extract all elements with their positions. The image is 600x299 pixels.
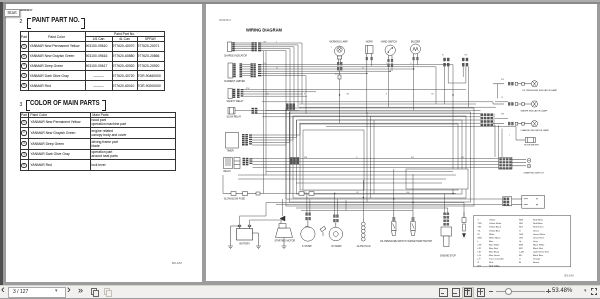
svg-text:Brown: Brown: [533, 262, 540, 264]
wire starting motor feed: [223, 175, 283, 216]
wire gauge labels speckle: [246, 41, 511, 194]
routing mesh inner clear block B: [406, 169, 468, 189]
routing mesh loop 4: [297, 120, 463, 194]
switch S3 water temp switch: [411, 212, 415, 236]
label F.I pump: [302, 246, 312, 248]
routing mesh loop 5: [300, 124, 458, 190]
switch S2 oil pressure switch: [392, 212, 396, 236]
svg-text:R/B: R/B: [501, 79, 505, 81]
page corner code text: [219, 18, 232, 22]
connector J4: [443, 58, 449, 67]
wire drops from connector J5: [463, 66, 469, 107]
svg-text:STARTING MOTOR: STARTING MOTOR: [275, 240, 296, 243]
routing mesh loop 1: [286, 108, 474, 206]
svg-text:Y/B: Y/B: [431, 93, 435, 95]
wire daisy chain left column: [264, 51, 267, 194]
svg-text:L/R: L/R: [478, 248, 482, 250]
meter hour meter: [516, 138, 535, 143]
pump M2 F.I pump: [301, 213, 315, 242]
svg-text:Red Black: Red Black: [533, 223, 544, 225]
connector J3 safety relay: [228, 89, 243, 99]
inline connector on main bus: [286, 103, 295, 109]
battery BT1: [237, 225, 253, 240]
svg-text:L.g/R: L.g/R: [519, 252, 525, 254]
buzzer BZ1: [411, 44, 421, 60]
lamp L4 charge indicator lamp: [493, 121, 538, 127]
view mode icons: [439, 288, 448, 297]
wire drops from horn: [367, 60, 372, 113]
wire drops from working lamp: [339, 79, 341, 123]
svg-text:CHARGE INDICATOR LAMP: CHARGE INDICATOR LAMP: [521, 129, 550, 132]
bottom harness bus: [260, 194, 502, 211]
relay K1 slow relay: [228, 108, 257, 115]
svg-text:White: White: [489, 233, 495, 236]
svg-text:SLOW BLOW FUSE: SLOW BLOW FUSE: [224, 199, 245, 201]
ground G1: [228, 226, 240, 249]
generator G dynamo: [329, 215, 343, 241]
label water temp switch: [408, 240, 433, 243]
switch S1 hand switch: [385, 45, 395, 67]
wire bundle from charge indicator: [235, 43, 302, 199]
svg-text:ENGINE STOP: ENGINE STOP: [440, 255, 456, 257]
svg-text:W: W: [442, 55, 444, 57]
wire stubs from timer: [252, 108, 300, 145]
wire bundle from current limiter: [242, 65, 453, 194]
wire slow relay link: [235, 110, 299, 113]
label relay: [224, 170, 232, 173]
ground G2: [253, 233, 262, 249]
glow plug R1: [361, 218, 365, 241]
svg-text:Red Yellow: Red Yellow: [489, 265, 500, 267]
svg-text:Y: Y: [509, 135, 511, 137]
svg-text:B: B: [304, 93, 306, 95]
svg-text:TIMER: TIMER: [227, 150, 234, 152]
wire drops from buzzer: [414, 60, 418, 110]
svg-text:Black White: Black White: [533, 243, 545, 246]
ground G3: [282, 238, 287, 249]
heading 1: [20, 19, 23, 25]
label charge indicator lamp: [521, 129, 550, 132]
heading 2: [20, 102, 23, 108]
page number: [565, 274, 575, 278]
timer U1: [226, 133, 253, 149]
svg-text:SAFETY RELAY: SAFETY RELAY: [227, 100, 244, 103]
svg-text:WATER TEMP SWITCH: WATER TEMP SWITCH: [408, 240, 433, 243]
wire riser to oil lamp: [497, 84, 499, 99]
label battery: [240, 242, 251, 245]
svg-text:OIL PRESSURE INDICATOR LAMP: OIL PRESSURE INDICATOR LAMP: [522, 89, 558, 92]
svg-text:L/W: L/W: [346, 93, 349, 95]
motor M1 starting motor: [276, 216, 293, 238]
label glow plug: [357, 246, 371, 248]
svg-text:Green Red: Green Red: [533, 237, 544, 239]
svg-text:L/B: L/B: [478, 252, 482, 254]
svg-text:W/R: W/R: [501, 114, 505, 116]
title: WIRING DIAGRAM: [246, 28, 283, 33]
svg-text:R/G: R/G: [519, 227, 523, 229]
connector J6 harness cluster: [481, 113, 494, 126]
inline connector on relay bus: [290, 157, 299, 164]
connector J2 current limiter: [228, 63, 261, 78]
svg-text:Y: Y: [331, 47, 333, 49]
connector J1 charge indicator: [228, 42, 262, 52]
svg-text:RELAY: RELAY: [224, 170, 232, 173]
wire drop to fuel sensor: [463, 203, 465, 218]
svg-text:L: L: [386, 63, 387, 65]
svg-text:Yellow: Yellow: [489, 220, 496, 222]
svg-text:SLOW RELAY: SLOW RELAY: [227, 115, 242, 118]
svg-text:Trace Lavender: Trace Lavender: [489, 259, 504, 261]
svg-text:Green White: Green White: [533, 233, 546, 236]
svg-text:Y/B: Y/B: [478, 227, 482, 229]
svg-text:STARTING SWITCH: STARTING SWITCH: [524, 171, 545, 174]
zoom controls: [489, 291, 493, 292]
svg-text:Y/L: Y/L: [501, 97, 504, 99]
sensor fuel unit: [462, 212, 466, 238]
svg-text:Green: Green: [533, 230, 540, 232]
svg-text:DYNAMO: DYNAMO: [332, 245, 342, 248]
fullscreen icon: [591, 288, 598, 295]
svg-text:HAND SWITCH: HAND SWITCH: [381, 40, 398, 43]
label current limiter: [224, 81, 245, 83]
svg-text:Orange: Orange: [533, 259, 541, 261]
main harness bus: [262, 102, 516, 140]
svg-text:HOUR METER: HOUR METER: [524, 144, 539, 146]
wire battery positive: [240, 203, 285, 226]
label starting motor: [275, 240, 296, 243]
label starting switch: [524, 171, 545, 174]
wire drop to glow plug: [362, 180, 364, 218]
solenoid engine stop: [441, 213, 452, 247]
svg-text:G/R: G/R: [266, 93, 270, 95]
lamp L3 water indicator lamp: [493, 101, 538, 107]
svg-text:Blue White: Blue White: [489, 243, 500, 246]
svg-text:W/B: W/B: [478, 237, 483, 239]
switch S4 starting switch: [499, 158, 531, 170]
table 2: [20, 112, 176, 171]
legend table of wire colors: [474, 216, 571, 267]
wire drops from connector J4: [445, 66, 466, 104]
label charge indicator: [224, 55, 247, 58]
svg-text:Blue Red: Blue Red: [489, 248, 499, 250]
svg-text:L/Y: L/Y: [478, 259, 482, 261]
wire risers J6 to starting switch: [495, 125, 502, 157]
svg-text:Blue Black: Blue Black: [489, 252, 500, 254]
wire lamp feeds: [494, 102, 508, 126]
svg-text:L/W: L/W: [263, 41, 266, 43]
svg-text:Yellow Black: Yellow Black: [489, 227, 502, 229]
svg-text:White Black: White Black: [489, 236, 501, 239]
connector J7 accessory plug: [503, 196, 545, 209]
label hand switch: [381, 40, 398, 43]
svg-text:CHARGE INDICATOR: CHARGE INDICATOR: [224, 55, 247, 58]
svg-text:Red Green: Red Green: [533, 227, 544, 229]
label working lamp: [330, 40, 349, 43]
svg-text:G/R: G/R: [519, 237, 523, 239]
routing mesh inner vertical bundle: [367, 112, 374, 202]
label slow relay: [227, 115, 242, 118]
wire drops from hand switch: [389, 67, 393, 108]
svg-text:Light Green Red: Light Green Red: [533, 251, 550, 254]
wire drop to F.I pump: [306, 194, 308, 213]
svg-text:9R830B17: 9R830B17: [219, 18, 232, 22]
table 1: [20, 31, 165, 91]
wire drop to engine stop: [445, 194, 448, 213]
svg-text:WIRING DIAGRAM: WIRING DIAGRAM: [246, 28, 283, 33]
svg-text:WATER INDICATOR LAMP: WATER INDICATOR LAMP: [521, 110, 548, 113]
svg-text:Br: Br: [519, 262, 521, 264]
svg-text:F.I PUMP: F.I PUMP: [302, 246, 312, 248]
wire drop to oil pressure switch: [393, 169, 395, 212]
svg-text:R/B: R/B: [519, 223, 523, 225]
label oil pressure switch: [380, 241, 407, 243]
svg-text:BATTERY: BATTERY: [240, 242, 251, 245]
svg-text:CURRENT LIMITER: CURRENT LIMITER: [224, 81, 245, 83]
svg-text:Yellow Blue: Yellow Blue: [489, 230, 501, 232]
label buzzer: [411, 41, 421, 43]
svg-text:R/W: R/W: [246, 88, 250, 90]
relay K2: [224, 158, 253, 169]
label hour meter: [524, 144, 539, 146]
relay output bus to starting switch: [238, 159, 499, 184]
svg-text:Blue Green: Blue Green: [489, 255, 501, 257]
svg-text:Yellow White: Yellow White: [489, 222, 502, 225]
svg-text:B/R: B/R: [519, 248, 523, 250]
label dynamo: [332, 245, 342, 248]
routing mesh loop 2: [290, 112, 471, 202]
svg-text:L/G: L/G: [478, 255, 482, 257]
label engine stop: [440, 255, 456, 257]
svg-text:BUZZER: BUZZER: [411, 41, 421, 43]
svg-text:GLOW PLUG: GLOW PLUG: [357, 246, 371, 248]
svg-text:OIL PRESSURE SWITCH: OIL PRESSURE SWITCH: [380, 241, 407, 243]
lamp L1 working lamp: [335, 46, 345, 79]
label oil pressure indicator lamp: [522, 89, 558, 92]
horn LS1: [366, 46, 374, 61]
start tab: [4, 9, 20, 17]
svg-text:B3-1/M: B3-1/M: [565, 274, 575, 278]
fuse F2 inline fuses on bottom bus: [299, 192, 314, 196]
svg-text:HORN: HORN: [366, 41, 373, 43]
label slow blow fuse: [224, 199, 245, 201]
svg-text:WORKING LAMP: WORKING LAMP: [330, 40, 349, 43]
diode D1: [320, 226, 326, 236]
wire drop to water temp switch: [412, 174, 414, 212]
svg-text:R: R: [386, 93, 388, 95]
lamp L2 oil pressure indicator lamp: [493, 81, 538, 87]
wire junction dots: [334, 68, 454, 203]
label safety relay: [227, 100, 244, 103]
fuse F1 slow blow fuse: [223, 192, 260, 196]
wire second drops to pump and dynamo: [310, 199, 346, 215]
svg-text:R/Y: R/Y: [478, 265, 482, 267]
connector J5: [462, 58, 468, 67]
routing mesh inner clear block A: [303, 130, 364, 190]
routing mesh loop 3: [293, 116, 466, 198]
svg-text:Gr: Gr: [519, 241, 522, 243]
svg-text:Black Red: Black Red: [533, 248, 544, 250]
wire bundle from safety relay: [244, 90, 467, 97]
wire drop to dynamo: [334, 194, 336, 215]
label water indicator lamp: [521, 110, 548, 113]
svg-text:Black Blue: Black Blue: [533, 255, 544, 257]
label timer: [227, 150, 234, 152]
svg-text:Red White: Red White: [533, 219, 544, 222]
svg-text:Y/W: Y/W: [464, 55, 468, 57]
label horn: [366, 41, 373, 43]
